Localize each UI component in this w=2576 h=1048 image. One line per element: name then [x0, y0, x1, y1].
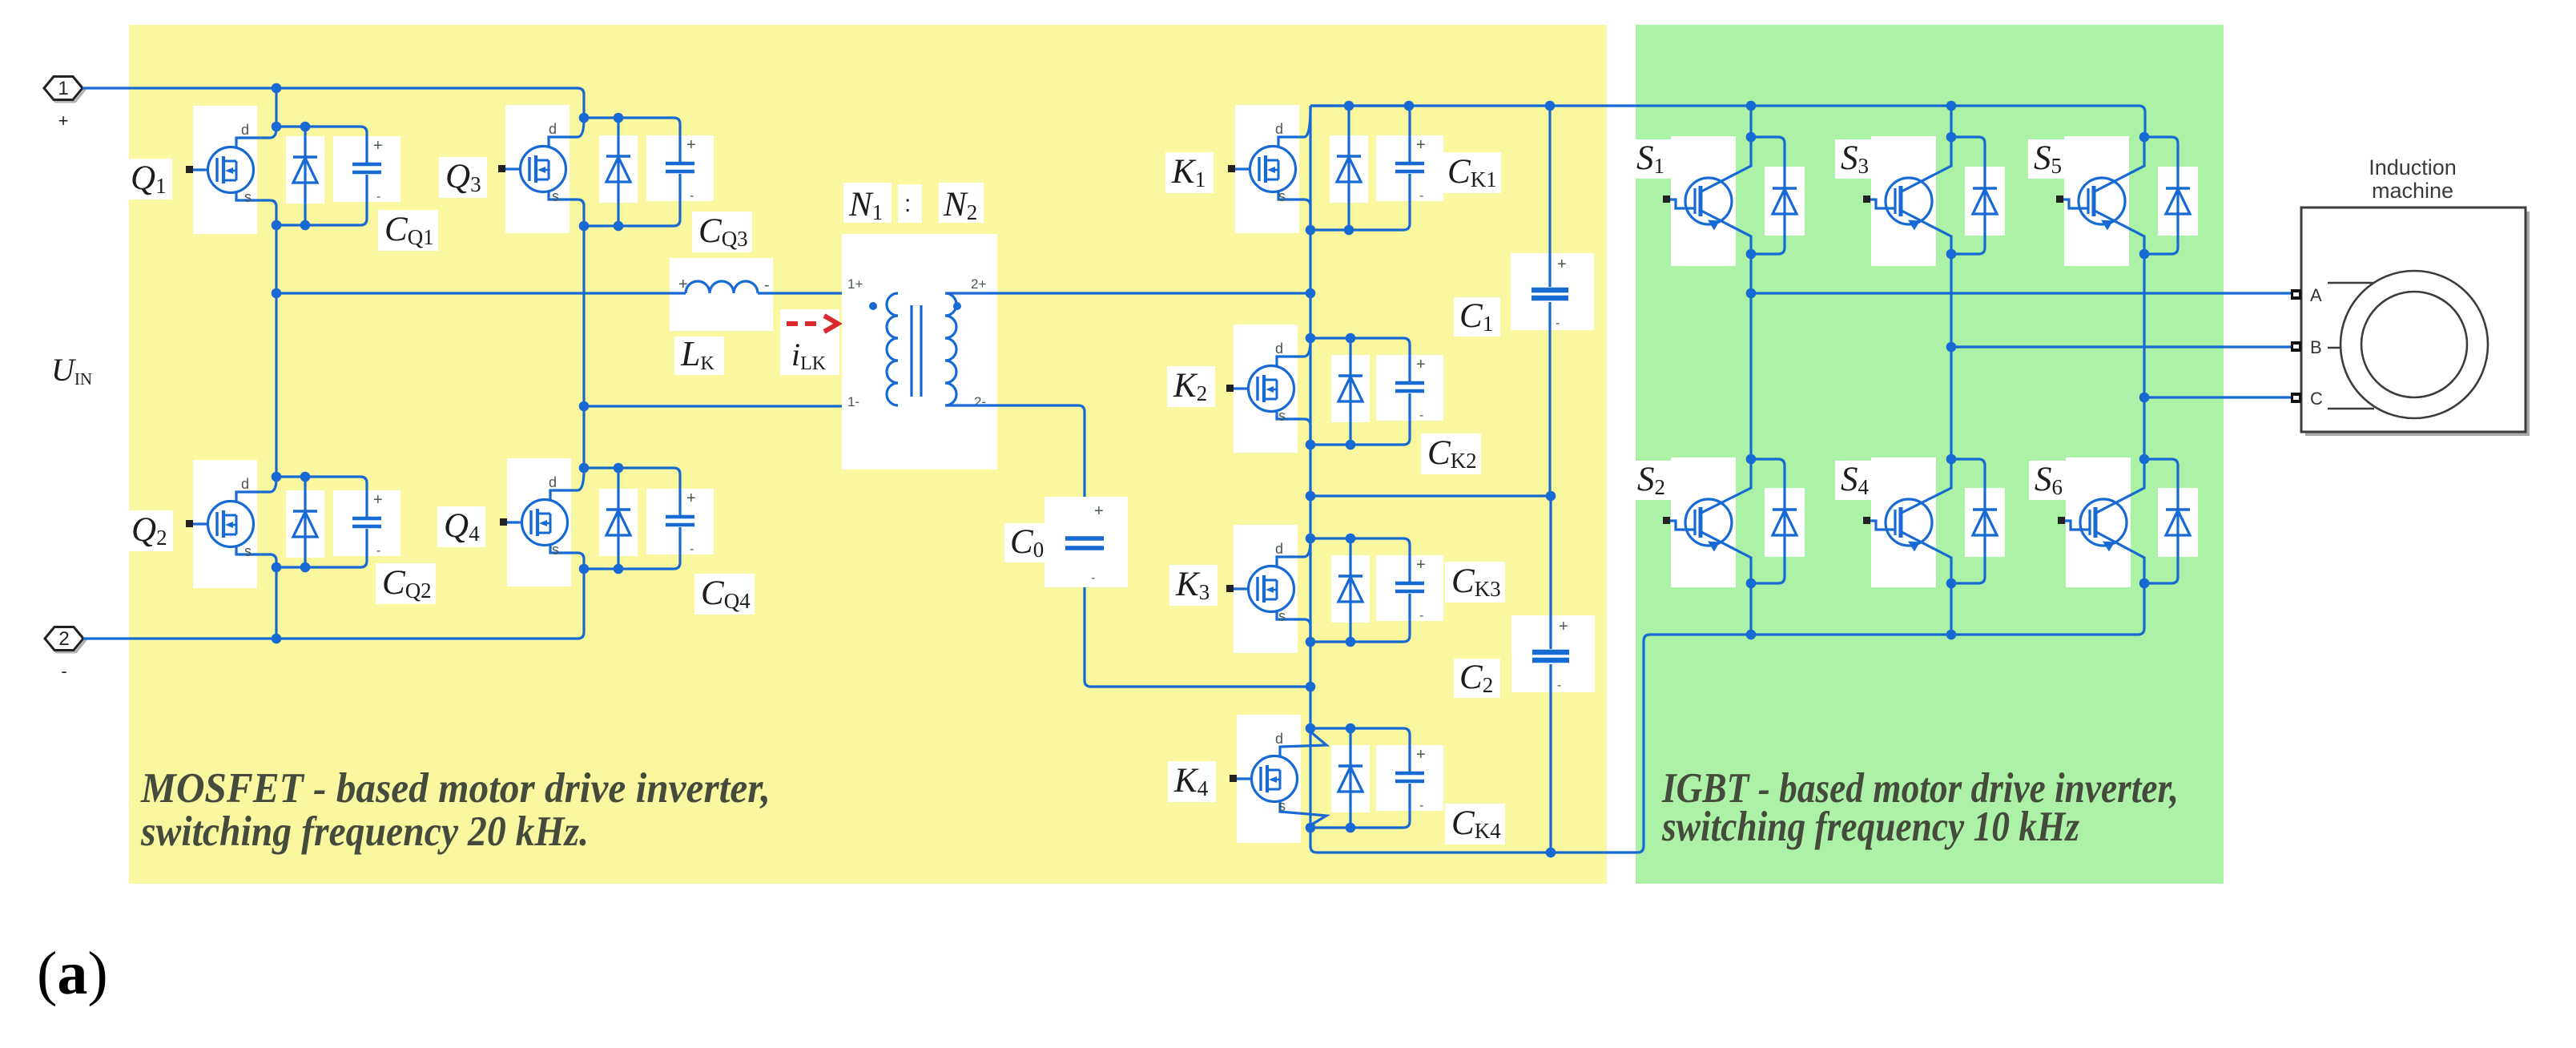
- label CQ2: [376, 563, 436, 604]
- svg-text:-: -: [1556, 316, 1560, 330]
- machine port B: [2291, 337, 2322, 357]
- polarity marks of LK: [678, 276, 770, 294]
- wire midpoint to transformer 1+ with inductor LK: [276, 281, 898, 293]
- MOSFET K3: [1226, 540, 1310, 642]
- svg-text:s: s: [244, 543, 252, 559]
- wire top DC bus: [1310, 106, 2145, 137]
- pin label s of K4: [1278, 798, 1286, 814]
- svg-text:+: +: [1416, 746, 1426, 764]
- induction machine block: [2301, 208, 2526, 432]
- diode of S3: [1951, 137, 1997, 254]
- green IGBT inverter region: [1636, 25, 2224, 884]
- pin label d of K4: [1275, 731, 1283, 747]
- wire K4 cell bottom rail: [1310, 784, 1410, 828]
- diode of K2: [1338, 338, 1362, 445]
- capacitor C0: [1044, 497, 1128, 587]
- wire phase B output: [1946, 342, 2292, 353]
- wire Q3/Q4 midpoint to transformer 1-: [584, 405, 898, 407]
- node dots of Q1 cell: [272, 122, 311, 231]
- svg-text:1: 1: [58, 78, 68, 99]
- IGBT S2: [1663, 459, 1751, 583]
- MOSFET Q3: [498, 119, 584, 226]
- IGBT S5: [2056, 137, 2144, 254]
- white boxes behind Q2 parts: [193, 460, 400, 588]
- svg-text:s: s: [1278, 188, 1286, 204]
- svg-text:s: s: [552, 542, 559, 558]
- pin label s of Q4: [552, 542, 559, 558]
- svg-text:-: -: [1557, 679, 1561, 692]
- wire K4 cell top rail: [1310, 728, 1410, 772]
- white boxes behind Q3 parts: [505, 105, 714, 233]
- capacitor plates of CQ1: [352, 164, 381, 172]
- label Q4: [437, 506, 485, 547]
- pin label d of K1: [1275, 121, 1283, 137]
- label CQ1: [378, 210, 438, 251]
- polarity marks of CK2: [1416, 356, 1426, 422]
- svg-text:-: -: [1419, 409, 1423, 422]
- node dots of S3: [1946, 132, 1957, 260]
- svg-text:d: d: [549, 474, 557, 490]
- svg-text:s: s: [1278, 608, 1286, 624]
- wire phase A leg: [1749, 254, 1752, 459]
- svg-text:-: -: [690, 542, 694, 556]
- transformer primary winding N1: [869, 293, 898, 405]
- svg-text:d: d: [1275, 541, 1283, 557]
- white boxes behind S5 parts: [2064, 136, 2198, 266]
- label Q1: [124, 159, 172, 200]
- wire S2 emitter drop: [1746, 583, 1757, 639]
- pin label s of Q2: [244, 543, 252, 559]
- capacitor plates of CK1: [1395, 163, 1424, 171]
- svg-text:d: d: [1275, 341, 1283, 357]
- wire S1 collector drop: [1746, 101, 1757, 137]
- svg-text:A: A: [2310, 285, 2322, 305]
- svg-text:switching frequency 10 kHz: switching frequency 10 kHz: [1661, 804, 2079, 850]
- pin label d of Q1: [241, 122, 249, 138]
- IGBT S4: [1863, 459, 1951, 583]
- svg-text:-: -: [1091, 571, 1095, 585]
- wire Q1-Q2 midpoint rail: [275, 225, 277, 477]
- white box behind inductor LK: [670, 258, 773, 331]
- MOSFET K2: [1226, 340, 1310, 445]
- wire phase B leg: [1950, 254, 1952, 459]
- white boxes behind K1 parts: [1235, 105, 1443, 233]
- svg-text:1+: 1+: [847, 276, 863, 292]
- induction machine block shadow: [2305, 212, 2530, 436]
- white boxes behind Q1 parts: [193, 106, 400, 234]
- diode of K4: [1338, 728, 1362, 828]
- IGBT S1: [1663, 137, 1751, 254]
- wire K1 cell top rail: [1310, 106, 1410, 163]
- svg-text:+: +: [1094, 502, 1104, 520]
- svg-text:s: s: [1278, 798, 1286, 814]
- pin label d of K3: [1275, 541, 1283, 557]
- caption MOSFET inverter: [140, 765, 771, 855]
- node dots of S5: [2139, 132, 2150, 260]
- current arrow iLK: [780, 309, 839, 375]
- polarity marks of CK1: [1416, 136, 1426, 203]
- label UIN: [51, 352, 92, 389]
- pin label s of K2: [1278, 408, 1286, 424]
- MOSFET K4: [1230, 728, 1326, 828]
- white boxes behind K2 parts: [1234, 324, 1443, 453]
- svg-text:B: B: [2310, 337, 2322, 357]
- capacitor plates of CQ2: [352, 518, 381, 526]
- machine port C: [2291, 389, 2323, 409]
- svg-text:+: +: [373, 137, 383, 155]
- label S5: [2028, 139, 2075, 179]
- svg-text:d: d: [1275, 731, 1283, 747]
- white boxes behind S2 parts: [1671, 457, 1805, 587]
- diode of Q1: [293, 127, 317, 225]
- label S4: [1835, 461, 1882, 500]
- white boxes behind S3 parts: [1871, 136, 2005, 266]
- svg-text:machine: machine: [2372, 179, 2453, 203]
- wire Q4 cell top rail: [584, 468, 680, 516]
- label C1: [1454, 297, 1500, 337]
- wire phase C output: [2139, 393, 2292, 403]
- svg-text:Induction: Induction: [2369, 155, 2457, 179]
- wire top bus from port 1 to Q1/Q3: [83, 88, 584, 118]
- svg-text:d: d: [241, 122, 249, 138]
- svg-text:MOSFET - based motor drive inv: MOSFET - based motor drive inverter,: [140, 765, 771, 812]
- machine port A: [2291, 285, 2322, 305]
- svg-text:s: s: [244, 189, 252, 205]
- wire Q3 cell bottom rail: [584, 174, 680, 226]
- yellow MOSFET inverter region: [129, 25, 1607, 884]
- svg-text:d: d: [241, 476, 249, 492]
- node dots of K2 cell: [1306, 333, 1356, 450]
- wire Q1 cell bottom rail: [276, 175, 367, 225]
- pin label d of Q2: [241, 476, 249, 492]
- label LK: [674, 334, 724, 375]
- svg-text::: :: [904, 191, 911, 217]
- label K4: [1168, 761, 1216, 802]
- svg-text:s: s: [1278, 408, 1286, 424]
- node dots of K1 cell: [1306, 101, 1354, 236]
- wire K4 source to IGBT negative bus: [1310, 583, 2144, 853]
- wire phase C leg: [2143, 254, 2145, 459]
- white boxes behind Q4 parts: [507, 458, 714, 586]
- pin label s of Q3: [552, 188, 559, 204]
- svg-text:switching frequency 20 kHz.: switching frequency 20 kHz.: [140, 808, 589, 855]
- wire K3 cell bottom rail: [1310, 594, 1410, 642]
- node bottom bus junction: [272, 634, 282, 644]
- svg-text:C: C: [2310, 389, 2323, 409]
- induction machine winding leads: [2328, 283, 2374, 409]
- MOSFET K1: [1228, 107, 1310, 230]
- polarity marks of CQ3: [686, 136, 696, 203]
- capacitor plates of CQ4: [666, 517, 694, 525]
- svg-text:-: -: [764, 276, 770, 294]
- label S1: [1631, 139, 1677, 179]
- svg-text:-: -: [690, 189, 694, 203]
- MOSFET Q4: [500, 470, 584, 569]
- label S6: [2029, 461, 2075, 500]
- svg-text:-: -: [61, 661, 66, 681]
- label C0: [1004, 523, 1051, 562]
- svg-text:+: +: [686, 136, 696, 154]
- node 1- junction: [579, 401, 590, 412]
- wire K1 cell bottom rail: [1310, 174, 1410, 230]
- white box behind transformer: [842, 234, 997, 470]
- svg-text:d: d: [549, 121, 557, 137]
- label S3: [1835, 139, 1882, 179]
- IGBT S6: [2058, 459, 2144, 583]
- MOSFET Q2: [186, 478, 276, 567]
- svg-text:s: s: [552, 188, 559, 204]
- node dots of S2: [1746, 454, 1757, 589]
- label N1 : N2: [843, 183, 984, 224]
- svg-text:2: 2: [58, 628, 69, 650]
- node dots of Q2 cell: [272, 472, 311, 573]
- induction machine rotor circles: [2341, 271, 2488, 418]
- pin label d of Q3: [549, 121, 557, 137]
- pin label s of K3: [1278, 608, 1286, 624]
- diode of Q4: [606, 468, 630, 569]
- node dots of Q3 cell: [579, 113, 624, 232]
- node K1 capacitor junction on top bus: [1404, 101, 1415, 111]
- svg-text:+: +: [1557, 256, 1567, 273]
- node Lk line junction: [272, 288, 282, 299]
- label K2: [1167, 366, 1215, 407]
- label C2: [1454, 659, 1500, 698]
- label K3: [1169, 565, 1218, 606]
- svg-text:2-: 2-: [974, 394, 986, 409]
- node dots of S6: [2139, 454, 2150, 589]
- wire S4 emitter drop: [1946, 583, 1957, 639]
- capacitor plates of CQ3: [666, 163, 694, 171]
- polarity marks of CQ2: [373, 491, 383, 558]
- wire Q2 cell top rail: [276, 477, 367, 518]
- capacitor C2: [1511, 496, 1595, 857]
- pin label s of Q1: [244, 189, 252, 205]
- svg-text:2+: 2+: [971, 276, 986, 292]
- svg-text:+: +: [1559, 618, 1568, 635]
- diode of S2: [1751, 459, 1797, 583]
- wire bottom bus from port 2 to Q2/Q4: [83, 569, 584, 639]
- wire Q3 cell top rail: [584, 118, 680, 163]
- node C0 return junction on K rail: [1306, 682, 1316, 692]
- label CK2: [1421, 433, 1481, 474]
- wire Q4 cell bottom rail: [584, 527, 680, 569]
- input port 2: [45, 627, 86, 682]
- svg-text:-: -: [376, 190, 380, 204]
- svg-text:-: -: [1419, 189, 1423, 203]
- IGBT S3: [1863, 137, 1951, 254]
- input port 1: [44, 77, 85, 131]
- svg-text:d: d: [1275, 121, 1283, 137]
- polarity marks of CK3: [1416, 556, 1426, 623]
- svg-text:(a): (a): [37, 940, 108, 1007]
- caption IGBT inverter: [1661, 765, 2179, 850]
- diode of K3: [1338, 538, 1362, 642]
- node dots of S4: [1946, 454, 1957, 589]
- wire S3 collector drop: [1946, 101, 1957, 137]
- wire K2 cell top rail: [1310, 338, 1410, 382]
- svg-text:+: +: [1416, 356, 1426, 373]
- label Q3: [439, 157, 487, 198]
- svg-text:+: +: [58, 111, 69, 131]
- figure label (a): [37, 940, 108, 1007]
- wire transformer 2+ to K rail: [945, 292, 1310, 294]
- node capacitor midpoint on K rail: [1306, 491, 1316, 502]
- diode of S6: [2144, 459, 2190, 583]
- capacitor plates of CK3: [1395, 583, 1424, 591]
- wire Q2 cell bottom rail: [276, 529, 367, 567]
- wire transformer 2- through C0 to K rail: [945, 405, 1310, 687]
- polarity marks of CQ1: [373, 137, 383, 204]
- wire phase A output: [1746, 288, 2292, 299]
- pin label s of K1: [1278, 188, 1286, 204]
- MOSFET Q1: [186, 128, 276, 225]
- diode of S4: [1951, 459, 1997, 583]
- svg-text:+: +: [678, 276, 688, 293]
- diode of K1: [1337, 106, 1361, 230]
- wire Q1 drain drop: [275, 88, 277, 127]
- svg-text:+: +: [1416, 136, 1426, 154]
- pin label d of Q4: [549, 474, 557, 490]
- transformer core: [912, 305, 921, 397]
- svg-text:-: -: [1419, 609, 1423, 623]
- wire capacitor midpoint link: [1310, 494, 1551, 497]
- node dots of K3 cell: [1306, 534, 1356, 647]
- svg-text:-: -: [376, 544, 380, 558]
- transformer terminal labels: [847, 276, 986, 409]
- diode of S1: [1751, 137, 1797, 254]
- label CQ4: [694, 574, 755, 615]
- polarity marks of CK4: [1416, 746, 1426, 812]
- label CK1: [1441, 152, 1501, 193]
- white boxes behind K4 parts: [1237, 715, 1443, 843]
- node dots of S1: [1746, 132, 1757, 260]
- svg-text:+: +: [1416, 556, 1426, 574]
- white boxes behind S6 parts: [2066, 457, 2198, 587]
- diode of S5: [2144, 137, 2190, 254]
- wire Q3-Q4 midpoint rail: [582, 226, 585, 468]
- svg-text:+: +: [373, 491, 383, 509]
- node top bus junction: [272, 83, 282, 94]
- svg-text:-: -: [1419, 799, 1423, 812]
- white boxes behind S1 parts: [1671, 136, 1805, 266]
- transformer secondary winding N2: [945, 293, 961, 405]
- node dots of K4 cell: [1306, 724, 1356, 833]
- label CQ3: [692, 212, 752, 252]
- white boxes behind K3 parts: [1234, 525, 1443, 653]
- capacitor plates of CK2: [1395, 383, 1424, 391]
- wire Q2 source drop: [275, 567, 277, 639]
- label K1: [1165, 152, 1214, 193]
- node dots of Q4 cell: [579, 463, 624, 574]
- wire K3 cell top rail: [1310, 538, 1410, 582]
- svg-text:1-: 1-: [847, 394, 859, 409]
- node 2+ junction on K rail: [1306, 288, 1316, 299]
- wire K2 cell bottom rail: [1310, 393, 1410, 445]
- capacitor plates of CK4: [1395, 773, 1424, 781]
- label Q2: [125, 510, 173, 551]
- label Induction machine: [2369, 155, 2457, 203]
- label CK4: [1445, 804, 1505, 844]
- white boxes behind S4 parts: [1871, 457, 2005, 587]
- pin label d of K2: [1275, 341, 1283, 357]
- diode of Q2: [293, 477, 317, 567]
- wire Q1 cell top rail: [276, 127, 367, 163]
- label CK3: [1445, 562, 1505, 603]
- wire K rectifier rail: [1309, 106, 1311, 828]
- label S2: [1632, 461, 1678, 500]
- label iLK: [791, 337, 827, 374]
- capacitor C1: [1511, 101, 1594, 502]
- polarity marks of CQ4: [686, 490, 696, 556]
- svg-text:+: +: [686, 490, 696, 507]
- diode of Q3: [606, 118, 630, 226]
